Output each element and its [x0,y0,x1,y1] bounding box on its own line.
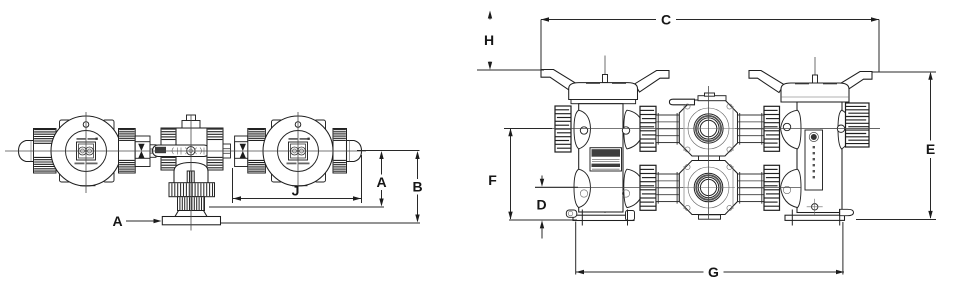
svg-text:B: B [412,179,422,195]
bottom valve corner bolts [685,164,690,169]
left body shell column [579,104,623,212]
nameplate lozenge [153,145,210,157]
right body handle left wing [749,71,784,93]
dimension E [856,72,936,220]
top pipe union L [640,106,656,151]
svg-text:A: A [376,174,386,190]
svg-text:J: J [292,183,300,199]
check body left union [161,128,176,170]
nipple threads R1 [223,144,231,158]
valve 2 inlet union nut [248,129,266,174]
centerline valve 2 [297,112,299,193]
right foot lug [840,209,854,215]
bleed screw valve 2 [295,122,301,128]
shutoff valve 1 cover [51,116,121,186]
bottom pipe threads R [738,172,765,204]
left body top-left boss [574,110,591,149]
inlet nipple threads [56,144,65,159]
left body handle right wing [635,71,670,93]
inlet union nut side view [34,129,57,174]
right body test cock cap [846,103,870,147]
right body handle right wing [837,72,872,94]
flange ears shutoff valve 1 [60,120,115,182]
dimension G [576,222,844,280]
connector between valves [699,156,720,165]
right foot test cock circle [812,204,818,210]
left body top-right boss [624,110,644,149]
pedestal arch [174,163,208,184]
flange ears shutoff valve 2 [272,120,326,182]
dimension C [541,11,879,71]
bottom check valve body [679,161,737,215]
pedestal flare [175,211,207,217]
bottom pipe threads L [656,172,679,204]
left hose cap [19,141,36,162]
left body bottom-right boss [624,169,644,207]
shutoff valve 1 inner circle [66,131,107,172]
centerline pedestal [190,115,192,231]
test cock valve R body [235,136,266,167]
right body shell column [797,102,842,213]
right body centerline [814,57,816,213]
left body bolt circles [580,127,587,134]
valve 2 outlet union nut [333,129,347,174]
test cock valve R handle bowtie [240,144,246,158]
centerline valve 1 [85,112,87,193]
shutoff valve 2 inner circle [278,131,319,172]
crosshair through cap [820,128,880,130]
valve 2 bottom chord [292,185,308,187]
dimension leader A base [112,213,161,229]
right body bolt circles [783,123,790,130]
left body bottom-left boss [574,169,591,207]
valve 1 bottom chord [80,185,96,187]
right body foot plate [785,215,845,220]
left body dome collar [571,100,636,104]
bottom valve sight rings [688,167,729,208]
top valve sight rings [688,108,729,149]
bottom valve crosshair [682,187,735,189]
left body dome edge dashes [586,82,600,84]
svg-text:C: C [661,11,671,27]
svg-text:A: A [112,213,122,229]
svg-text:F: F [488,172,497,188]
dimension D [535,176,578,239]
right body dome cap [781,83,849,102]
valve 1 outlet union nut [119,129,136,174]
sight tube [805,130,823,190]
bleed screw valve 1 [83,122,89,128]
left foot right ear [626,211,635,221]
cast lettering valve 1 [75,138,98,165]
pedestal stem knurl [187,171,194,183]
cast lettering valve 2 [287,138,310,165]
dimension F [488,128,577,220]
left body centerline [604,56,606,214]
left body dome cap [569,83,638,100]
dimension A right [209,151,420,208]
check body right union [207,128,223,170]
pedestal knurled nut [169,183,215,197]
svg-text:E: E [926,141,935,157]
check valves vertical centerline [708,86,710,219]
base plate [162,217,220,225]
svg-text:G: G [708,264,719,280]
top valve plateau and nub [698,96,726,101]
nameplate left body [590,148,622,171]
right body stem nub [813,75,818,83]
left body inlet union [555,106,571,152]
top pipe threads R [738,113,765,145]
top pipe threads L [656,113,679,145]
check body [176,115,207,171]
right body bottom-left boss [781,169,802,207]
svg-text:D: D [536,196,546,212]
test cock valve L body [135,136,150,167]
shutoff valve 2 cover [263,116,333,186]
left foot bolt slots [581,210,583,226]
bottom valve lower stub [699,215,721,219]
dimension J [233,155,362,203]
left body foot plate [573,215,634,220]
dimension H [477,11,544,71]
top pipe union R [764,106,780,151]
center boss valve 1 [77,142,96,160]
dimension B [221,151,423,223]
right hose cap [347,141,362,162]
top valve handle bar [669,99,694,105]
top valve corner bolts [685,104,690,109]
left body handle left wing [541,70,576,92]
bottom pipe union L [640,165,656,210]
main horizontal centerline side view [5,150,366,152]
test cock valve L handle bowtie [138,144,144,158]
right body dome edge dashes [795,83,809,85]
top check valve body [679,100,737,156]
left foot ear lug [566,210,577,217]
right body top-left boss [781,110,802,149]
svg-text:H: H [484,32,494,48]
top valve crosshair [682,128,735,130]
top pipe horizontal centerline [504,128,683,130]
bottom pipe union R [764,165,780,210]
left body stem nub [603,75,608,83]
right body top-right boss [838,110,850,149]
center boss valve 2 [289,142,308,160]
pedestal knurled column [178,197,205,211]
right foot bolt slots [791,210,793,226]
nipple threads L [150,145,156,158]
bottom pipe horizontal centerline [535,187,683,189]
